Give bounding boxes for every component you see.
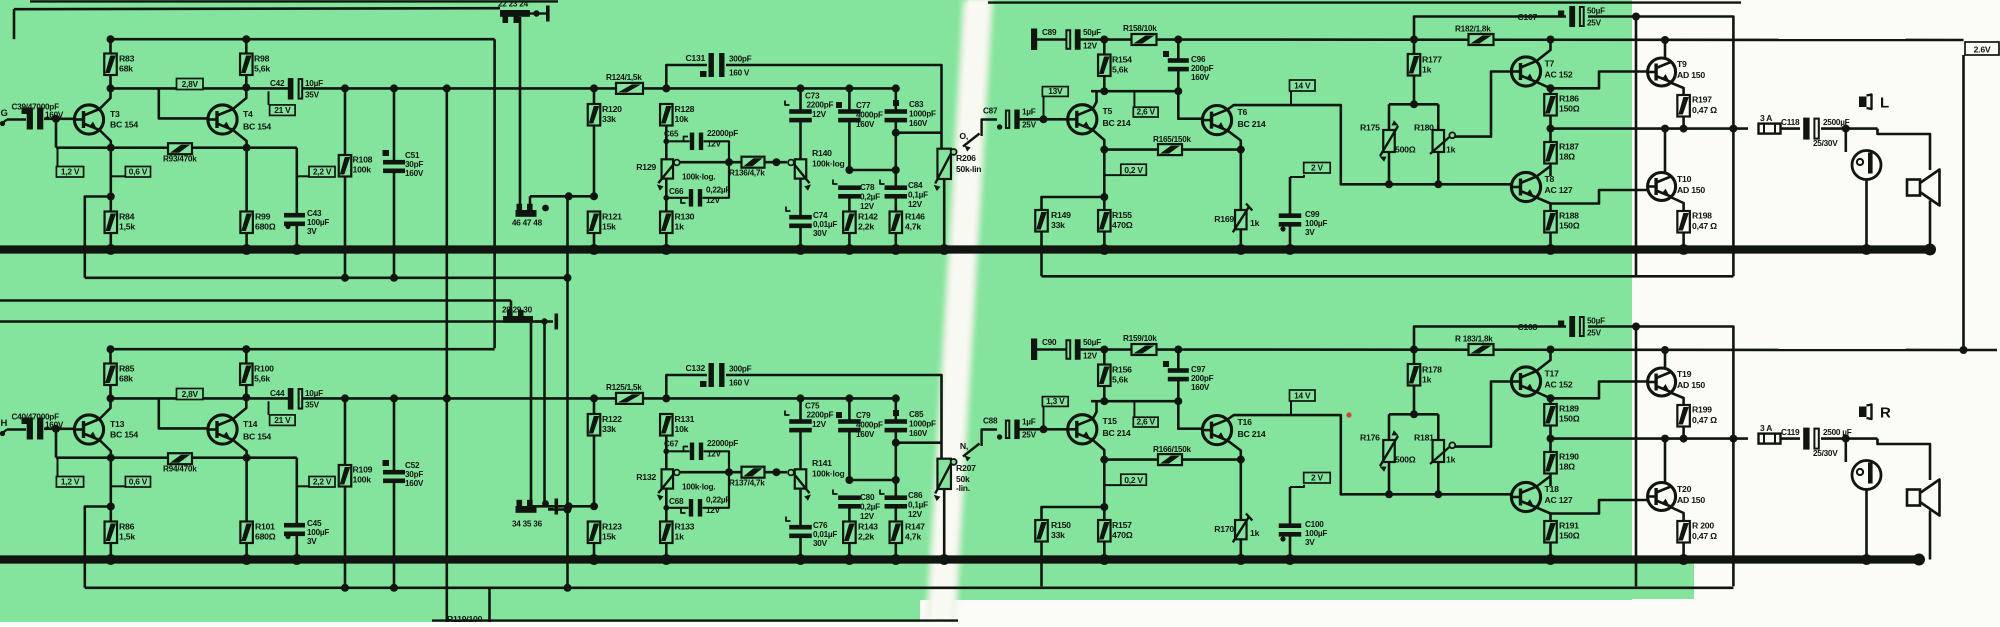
svg-text:160V: 160V: [909, 119, 928, 128]
svg-text:R150: R150: [1051, 520, 1071, 530]
svg-text:25V: 25V: [1022, 431, 1037, 440]
svg-text:200pF: 200pF: [1191, 374, 1214, 383]
wire long vertical x567: [566, 196, 569, 588]
svg-text:680Ω: 680Ω: [255, 222, 276, 232]
node R120 top: [590, 394, 598, 402]
voltage 14V box: [1290, 401, 1292, 415]
node R128 top: [662, 84, 670, 92]
svg-text:0,2 V: 0,2 V: [1124, 475, 1143, 485]
resistor R166/150k: [1158, 454, 1182, 465]
svg-text:R175: R175: [1360, 123, 1380, 133]
node C83 top: [892, 394, 900, 402]
white margin bottom right of green: [920, 600, 1632, 622]
wire T3 collector: [100, 398, 111, 419]
speaker: [1907, 490, 1920, 506]
wire wiper line: [680, 161, 742, 164]
capacitor C88: [1014, 420, 1019, 440]
node rail C51: [390, 584, 398, 592]
resistor R84: [105, 212, 118, 234]
resistor R109: [344, 398, 347, 465]
node T7 collector: [1547, 346, 1555, 354]
svg-text:22 23 24: 22 23 24: [498, 0, 529, 9]
bus node: [291, 554, 302, 565]
wire speaker ground: [1929, 511, 1932, 560]
node output left: [1547, 125, 1555, 133]
svg-text:0,2 V: 0,2 V: [1124, 165, 1143, 175]
svg-text:100k·log.: 100k·log.: [682, 173, 715, 182]
resistor R157: [1098, 520, 1111, 542]
svg-text:-lin.: -lin.: [956, 483, 970, 493]
svg-text:470Ω: 470Ω: [1112, 530, 1133, 540]
voltage 21V box: [268, 401, 270, 415]
svg-text:R180: R180: [1414, 123, 1434, 133]
potentiometer R180: [1433, 130, 1445, 152]
svg-text:R155: R155: [1112, 210, 1132, 220]
resistor R130: [665, 179, 668, 212]
node R120 top: [590, 84, 598, 92]
voltage 2V box: [1304, 473, 1331, 484]
svg-text:BC 214: BC 214: [1238, 119, 1266, 129]
svg-text:R124/1,5k: R124/1,5k: [606, 73, 642, 82]
svg-text:4,7k: 4,7k: [905, 532, 921, 542]
resistor R 183/1,8k: [1469, 344, 1494, 355]
svg-text:300pF: 300pF: [729, 365, 752, 374]
ground bus: [0, 245, 1930, 253]
svg-text:C43: C43: [307, 209, 322, 218]
node frame output: [1729, 435, 1737, 443]
svg-text:1k: 1k: [675, 532, 685, 542]
svg-text:R130: R130: [675, 212, 695, 222]
svg-text:35V: 35V: [305, 91, 320, 100]
capacitor C99: [1289, 177, 1292, 216]
svg-text:1,2 V: 1,2 V: [61, 167, 80, 177]
svg-text:R165/150k: R165/150k: [1153, 135, 1192, 144]
voltage 0.6V box: [111, 175, 126, 177]
svg-text:25/30V: 25/30V: [1813, 139, 1838, 148]
wire T9 emitter: [1672, 83, 1684, 95]
svg-text:4000pF: 4000pF: [856, 111, 883, 120]
wire mid link line: [849, 169, 895, 172]
wire base rail: [55, 429, 58, 458]
node wiper junction left: [725, 158, 733, 166]
resistor R121: [588, 212, 601, 234]
capacitor C68: [689, 499, 693, 517]
wire R165 line: [1104, 148, 1241, 151]
svg-text:2200pF: 2200pF: [807, 411, 834, 420]
resistor R100: [245, 349, 248, 363]
node C73 top: [797, 394, 805, 402]
wire inner frame vertical: [1635, 17, 1638, 277]
node T7 collector: [1547, 36, 1555, 44]
wire T5 collector: [1093, 130, 1105, 250]
svg-text:R188: R188: [1559, 211, 1579, 221]
node R121 top: [590, 502, 598, 510]
transistor T20: [1648, 483, 1676, 511]
svg-text:100µF: 100µF: [1305, 219, 1327, 228]
wire T4 emitter: [233, 130, 247, 148]
capacitor C44: [288, 388, 294, 410]
svg-text:R120: R120: [602, 104, 622, 114]
wire bias bracket: [1389, 103, 1438, 106]
svg-text:R198: R198: [1692, 211, 1712, 221]
bus node: [1678, 244, 1689, 255]
node R83 top: [107, 35, 115, 43]
svg-text:28 29 30: 28 29 30: [502, 306, 533, 315]
potentiometer R129: [662, 159, 674, 178]
capacitor C78: [838, 185, 861, 190]
node wiper junction left: [725, 468, 733, 476]
svg-text:T15: T15: [1103, 416, 1118, 426]
transistor T9: [1648, 58, 1676, 86]
capacitor C67: [690, 443, 694, 461]
potentiometer R132: [662, 469, 674, 488]
svg-text:160 V: 160 V: [729, 379, 750, 388]
wire top edge line: [30, 0, 558, 2]
svg-text:C44: C44: [270, 389, 285, 398]
node 13V tap: [1040, 115, 1048, 123]
wire speaker feed: [1878, 129, 1931, 170]
voltage 1.2V box: [57, 459, 59, 477]
node R175 bottom: [1385, 490, 1393, 498]
node R165 right: [1237, 456, 1245, 464]
svg-text:R129: R129: [636, 162, 656, 172]
svg-text:2,8V: 2,8V: [182, 79, 199, 89]
transistor T19: [1648, 368, 1676, 396]
bus node: [105, 554, 116, 565]
svg-text:2 V: 2 V: [1311, 163, 1323, 173]
wire bottom edge line: [432, 619, 958, 621]
wire jack ground: [1865, 490, 1868, 560]
bus end node: [1924, 244, 1936, 256]
wire bottom supply ext: [1964, 349, 1998, 352]
svg-text:0,1µF: 0,1µF: [908, 501, 928, 510]
svg-text:R86: R86: [119, 522, 135, 532]
svg-text:22000pF: 22000pF: [707, 129, 738, 138]
svg-text:0,6 V: 0,6 V: [129, 167, 148, 177]
svg-text:18Ω: 18Ω: [1559, 152, 1575, 162]
svg-text:12V: 12V: [1083, 352, 1098, 361]
svg-text:12V: 12V: [706, 506, 721, 515]
svg-text:R131: R131: [675, 414, 695, 424]
potentiometer R176: [1383, 440, 1395, 462]
wire base rail: [55, 119, 58, 148]
bus node: [661, 554, 672, 565]
svg-text:30pF: 30pF: [405, 470, 423, 479]
wire T7 base link: [1451, 137, 1453, 139]
svg-text:1µF: 1µF: [1022, 418, 1036, 427]
resistor R146: [890, 212, 903, 234]
potentiometer R170: [1235, 520, 1247, 539]
svg-text:R146: R146: [905, 212, 925, 222]
bus node: [661, 244, 672, 255]
svg-text:50µF: 50µF: [1587, 317, 1605, 326]
node C66 left: [663, 195, 669, 201]
resistor R150: [1042, 507, 1105, 520]
svg-text:R190: R190: [1559, 452, 1579, 462]
svg-text:160V: 160V: [909, 429, 928, 438]
svg-text:BC 214: BC 214: [1103, 118, 1131, 128]
node emitter T4: [243, 144, 251, 152]
bus node: [795, 244, 806, 255]
svg-text:T20: T20: [1677, 484, 1692, 494]
resistor R83: [109, 39, 112, 53]
headphone icon L: [1859, 97, 1867, 108]
node T9 collector: [1661, 36, 1669, 44]
svg-text:2,2k: 2,2k: [858, 222, 874, 232]
resistor R128: [660, 104, 673, 126]
svg-text:100k: 100k: [353, 475, 372, 485]
svg-text:C42: C42: [270, 79, 285, 88]
capacitor C51: [383, 150, 390, 156]
wire C42 output line: [303, 397, 897, 400]
capacitor C83: [894, 88, 897, 113]
svg-text:300pF: 300pF: [729, 55, 752, 64]
svg-text:R123: R123: [602, 522, 622, 532]
svg-text:C65: C65: [664, 130, 679, 139]
svg-text:0,47 Ω: 0,47 Ω: [1692, 105, 1717, 115]
svg-text:5,6k: 5,6k: [1112, 65, 1128, 75]
transistor T13: [74, 415, 103, 444]
wire wiper line: [680, 471, 742, 474]
svg-text:C97: C97: [1191, 365, 1206, 374]
node T5 emitter: [1100, 397, 1108, 405]
capacitor C108: [1569, 316, 1575, 337]
svg-text:0,01µF: 0,01µF: [813, 530, 837, 539]
wire 30 drop: [543, 324, 546, 503]
svg-text:R154: R154: [1112, 55, 1132, 65]
capacitor C96: [1177, 40, 1180, 60]
fuse 3A: [1759, 434, 1781, 444]
svg-text:22000pF: 22000pF: [707, 439, 738, 448]
bus node: [939, 244, 950, 255]
wire terminal drop: [519, 17, 522, 204]
svg-text:150Ω: 150Ω: [1559, 414, 1580, 424]
wire T8 base link: [1511, 494, 1513, 497]
capacitor C40/47000pF: [22, 418, 29, 425]
resistor R158/10k: [1132, 34, 1157, 45]
svg-text:0,47 Ω: 0,47 Ω: [1692, 415, 1717, 425]
resistor R197: [1677, 95, 1690, 117]
resistor R122: [593, 398, 596, 414]
wire R84 bracket: [110, 458, 113, 522]
node x567 rail top: [564, 274, 572, 282]
svg-text:1k: 1k: [1446, 455, 1456, 465]
wire T10 collector: [1664, 439, 1667, 483]
svg-text:2.6V: 2.6V: [1974, 45, 1991, 55]
wiper circle R181: [1449, 442, 1455, 448]
transistor T8: [1511, 172, 1540, 201]
resistor R101: [245, 458, 248, 522]
node frame top: [1632, 13, 1640, 21]
svg-text:3V: 3V: [1305, 228, 1315, 237]
node T4 collector: [242, 394, 250, 402]
node C77 top: [845, 394, 853, 402]
svg-text:R141: R141: [812, 458, 832, 468]
svg-text:R156: R156: [1112, 365, 1132, 375]
capacitor C65: [690, 133, 694, 151]
svg-text:R206: R206: [956, 153, 976, 163]
resistor R99: [245, 148, 248, 212]
svg-text:33k: 33k: [1051, 530, 1065, 540]
svg-text:200pF: 200pF: [1191, 64, 1214, 73]
wire C131 loop: [666, 65, 707, 88]
resistor R143: [843, 522, 856, 544]
node C51 top: [390, 84, 398, 92]
svg-text:R85: R85: [119, 364, 135, 374]
resistor R191: [1544, 521, 1557, 543]
node R154 top: [1100, 36, 1108, 44]
svg-text:BC 154: BC 154: [110, 430, 138, 440]
bus node: [1861, 244, 1872, 255]
svg-text:C132: C132: [685, 363, 705, 373]
svg-text:C88: C88: [983, 417, 998, 426]
svg-text:0,22µF: 0,22µF: [706, 496, 730, 505]
resistor R 200: [1677, 521, 1690, 543]
voltage 2.2V box: [297, 175, 309, 177]
wire right rail: [0, 0, 1, 1]
node long vertical junction: [443, 84, 451, 92]
capacitor C131: [700, 71, 707, 77]
node x567 rail bottom: [564, 584, 572, 592]
svg-text:N,: N,: [960, 441, 968, 451]
svg-text:R 183/1,8k: R 183/1,8k: [1455, 335, 1493, 344]
node C65 left: [663, 448, 669, 454]
wire C43 drop: [295, 148, 298, 213]
node emitter T4: [243, 454, 251, 462]
bus node: [1545, 554, 1556, 565]
bus node: [1099, 244, 1110, 255]
capacitor C42: [288, 78, 294, 100]
ground bus: [0, 555, 1919, 563]
bus node: [1285, 554, 1296, 565]
node rail R108: [341, 274, 349, 282]
svg-text:4,7k: 4,7k: [905, 222, 921, 232]
svg-text:AC 152: AC 152: [1545, 380, 1573, 390]
svg-text:1k: 1k: [1250, 528, 1260, 538]
svg-text:H: H: [1, 418, 8, 429]
svg-text:100µF: 100µF: [307, 528, 329, 537]
node C77 top: [845, 84, 853, 92]
wire R83 R98 top line: [111, 38, 495, 41]
node C51 top: [390, 394, 398, 402]
wire C131 loop: [666, 375, 707, 398]
resistor R137/4,7k: [742, 467, 765, 478]
capacitor C118: [1803, 118, 1809, 140]
node mid link right: [892, 166, 900, 174]
svg-text:2,6 V: 2,6 V: [1137, 107, 1156, 117]
wire mid link line: [849, 479, 895, 482]
svg-text:12V: 12V: [1083, 42, 1098, 51]
svg-text:T17: T17: [1545, 369, 1560, 379]
wire terminal link: [530, 505, 594, 508]
capacitor C77: [848, 88, 851, 113]
svg-text:18Ω: 18Ω: [1559, 462, 1575, 472]
wire T10 emitter: [1672, 198, 1684, 212]
node jack tap: [1842, 435, 1850, 443]
node T5 emitter: [1100, 87, 1108, 95]
svg-text:25V: 25V: [1022, 121, 1037, 130]
capacitor C86: [885, 495, 908, 500]
svg-text:C51: C51: [405, 151, 420, 160]
wire T6 collector: [1228, 131, 1241, 213]
svg-text:BC 154: BC 154: [243, 432, 271, 442]
bus node: [241, 244, 252, 255]
svg-text:160V: 160V: [1191, 383, 1210, 392]
svg-text:T6: T6: [1238, 107, 1248, 117]
svg-text:R101: R101: [255, 522, 275, 532]
svg-text:12V: 12V: [908, 510, 923, 519]
potentiometer R140: [795, 159, 807, 178]
svg-text:3V: 3V: [307, 537, 317, 546]
wire collector line: [111, 397, 289, 400]
wire T7 emitter staircase: [1537, 72, 1649, 89]
wire fuse to C118: [1781, 437, 1801, 440]
node R177 bottom: [1410, 410, 1418, 418]
svg-text:C84: C84: [908, 181, 923, 190]
wire R206 top link: [896, 441, 942, 444]
wire output line: [1551, 437, 1749, 440]
svg-text:35V: 35V: [305, 401, 320, 410]
svg-text:12V: 12V: [812, 110, 827, 119]
svg-text:1,5k: 1,5k: [119, 222, 135, 232]
svg-text:0,47 Ω: 0,47 Ω: [1692, 531, 1717, 541]
bus node: [890, 244, 901, 255]
svg-text:R178: R178: [1422, 365, 1442, 375]
node R206 link: [892, 129, 900, 137]
svg-text:160V: 160V: [1191, 73, 1210, 82]
svg-text:46 47 48: 46 47 48: [512, 219, 543, 228]
wire T3 emitter: [100, 130, 111, 148]
voltage 2.8V: [177, 389, 204, 400]
svg-text:R137/4,7k: R137/4,7k: [729, 479, 765, 488]
voltage 1.2V box: [57, 149, 59, 167]
svg-text:100k·log: 100k·log: [812, 469, 845, 479]
svg-text:T16: T16: [1238, 417, 1253, 427]
wire jack drop: [1845, 129, 1848, 152]
potentiometer R181: [1433, 440, 1445, 462]
svg-text:1,5k: 1,5k: [119, 532, 135, 542]
bus node: [1099, 554, 1110, 565]
svg-text:25V: 25V: [1587, 329, 1602, 338]
svg-text:R122: R122: [602, 414, 622, 424]
svg-text:R100: R100: [254, 364, 274, 374]
resistor R187: [1549, 129, 1552, 142]
node input junction: [52, 115, 60, 123]
svg-text:10k: 10k: [675, 424, 689, 434]
capacitor C107: [1569, 6, 1575, 27]
terminal 46 47 48: [516, 210, 537, 217]
svg-text:C99: C99: [1305, 210, 1320, 219]
node wiper junction right: [772, 158, 780, 166]
wire right rail: [1042, 275, 1734, 278]
svg-text:0,1µF: 0,1µF: [908, 191, 928, 200]
svg-text:R149: R149: [1051, 210, 1071, 220]
wire C118 to jack: [1821, 127, 1878, 130]
svg-text:33k: 33k: [1051, 220, 1065, 230]
wire T9 collector: [1664, 40, 1667, 59]
svg-text:C67: C67: [664, 440, 679, 449]
node R83 top: [107, 345, 115, 353]
wire mid line B: [0, 320, 545, 323]
speaker: [1907, 180, 1920, 196]
resistor R125/1,5k: [616, 393, 643, 404]
resistor R154: [1103, 40, 1106, 55]
node 13V tap: [1040, 425, 1048, 433]
wire T7 base link: [1451, 447, 1453, 449]
node mid link left: [845, 476, 853, 484]
wire C107 loop: [1414, 327, 1566, 350]
node C66 left: [663, 505, 669, 511]
